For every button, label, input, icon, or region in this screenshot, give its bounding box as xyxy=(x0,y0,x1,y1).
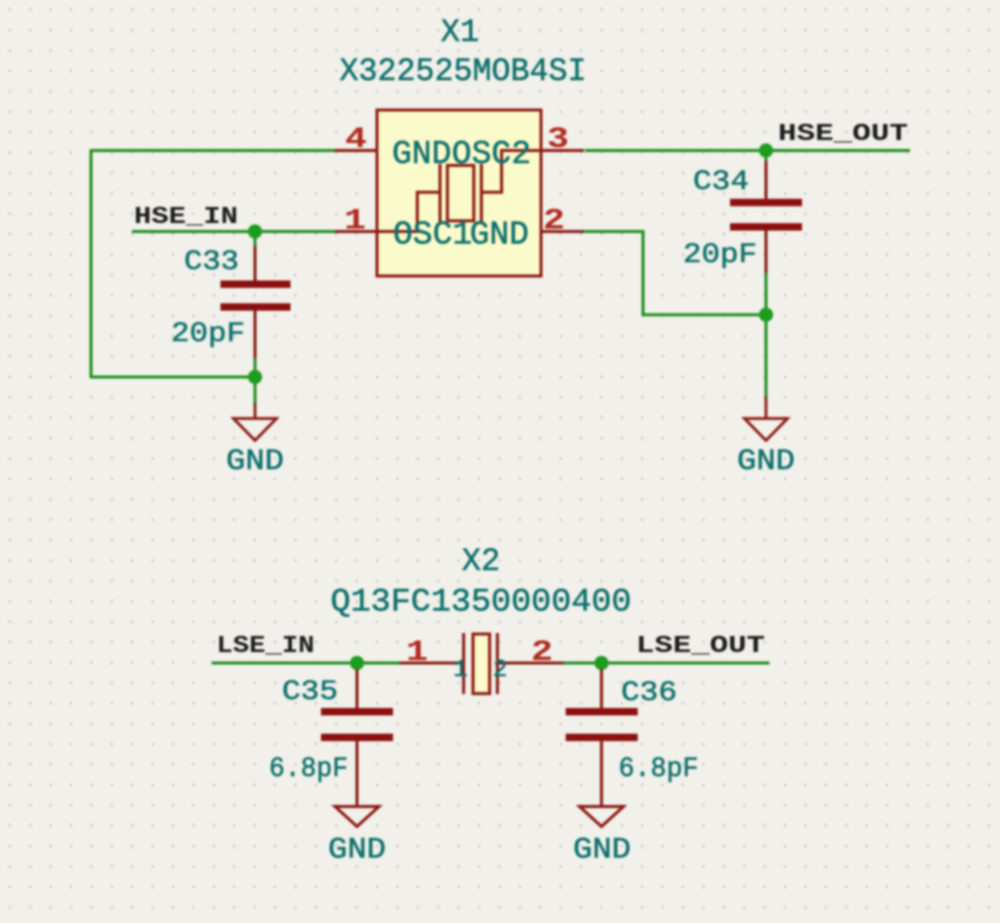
svg-text:GND: GND xyxy=(328,834,386,868)
svg-text:X1: X1 xyxy=(441,14,479,51)
svg-text:Q13FC1350000400: Q13FC1350000400 xyxy=(331,584,632,621)
svg-text:OSC1: OSC1 xyxy=(393,217,472,254)
svg-text:X322525MOB4SI: X322525MOB4SI xyxy=(340,53,587,90)
svg-text:C36: C36 xyxy=(621,678,677,709)
svg-text:20pF: 20pF xyxy=(171,319,245,350)
svg-text:OSC2: OSC2 xyxy=(452,136,531,173)
svg-text:3: 3 xyxy=(547,123,569,157)
svg-text:C34: C34 xyxy=(693,167,749,198)
svg-text:2: 2 xyxy=(493,657,507,684)
svg-text:GND: GND xyxy=(573,834,631,868)
svg-text:GND: GND xyxy=(226,445,284,479)
svg-text:20pF: 20pF xyxy=(683,240,757,271)
svg-text:4: 4 xyxy=(345,123,367,157)
svg-text:GND: GND xyxy=(470,217,529,254)
svg-text:HSE_IN: HSE_IN xyxy=(134,204,238,231)
svg-text:2: 2 xyxy=(543,205,565,239)
svg-text:GND: GND xyxy=(737,445,795,479)
svg-text:X2: X2 xyxy=(462,543,500,580)
svg-text:1: 1 xyxy=(453,657,467,684)
svg-text:C35: C35 xyxy=(282,677,338,708)
svg-text:LSE_OUT: LSE_OUT xyxy=(636,633,765,660)
svg-text:HSE_OUT: HSE_OUT xyxy=(778,121,908,148)
svg-text:LSE_IN: LSE_IN xyxy=(217,633,315,660)
svg-text:6.8pF: 6.8pF xyxy=(269,754,348,785)
svg-text:1: 1 xyxy=(406,636,428,670)
svg-text:GND: GND xyxy=(392,136,451,173)
svg-text:2: 2 xyxy=(531,636,553,670)
svg-text:C33: C33 xyxy=(184,247,239,278)
svg-text:1: 1 xyxy=(344,205,366,239)
svg-text:6.8pF: 6.8pF xyxy=(619,754,699,785)
